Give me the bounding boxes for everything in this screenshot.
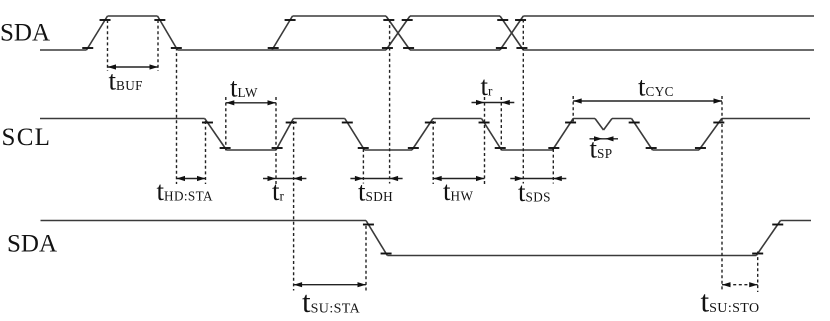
svg-text:SDA: SDA bbox=[0, 20, 50, 47]
dimension arrow tHW bbox=[433, 178, 484, 180]
wire: SCL falling edge 4 bbox=[632, 119, 653, 151]
wire: SDA top initial low segment bbox=[40, 49, 87, 51]
dimension arrow tSDH bbox=[350, 178, 402, 180]
extension line at SCL fall 3 top (tHW right / tr2 left) bbox=[484, 97, 486, 184]
wire: SCL rising edge 1 bbox=[276, 119, 293, 151]
tick marks on SDA rising edge 1 bbox=[100, 19, 111, 21]
wire: SDA top rising edge 2 bbox=[272, 16, 293, 50]
dimension arrow tSP bbox=[590, 138, 619, 140]
svg-text:tBUF: tBUF bbox=[109, 66, 143, 96]
wire: SDA crossover X1 falling diagonal bbox=[386, 16, 410, 50]
wire: SDA top low rail between crossovers bbox=[410, 49, 500, 51]
svg-text:tSDH: tSDH bbox=[358, 177, 393, 207]
extension line at SDA bottom rise (tSU:STO right) bbox=[757, 252, 759, 293]
wire: SDA bottom low segment bbox=[387, 255, 756, 257]
tick marks on SCL rising edge 2 bbox=[425, 122, 436, 124]
wire: SCL rising edge 3 bbox=[553, 119, 574, 151]
wire: SDA bottom falling edge bbox=[366, 221, 387, 256]
dimension arrow tLW bbox=[226, 102, 276, 104]
tick marks on X1 falling diagonal bbox=[383, 19, 394, 21]
extension line at SDA crossover X1 (tSDH right) bbox=[389, 20, 391, 184]
wire: SCL falling edge 1 bbox=[205, 119, 227, 151]
wire: SDA top rising edge 1 bbox=[87, 16, 108, 50]
wire: SCL high segment 5 (after spike notch) bbox=[612, 118, 632, 120]
wire: SCL falling edge 3 bbox=[482, 119, 502, 151]
tick marks on SCL rising edge 4 bbox=[713, 122, 724, 124]
wire: SDA top low rail bbox=[178, 49, 387, 51]
extension line at SDA rise 1 top (tBUF left) bbox=[107, 20, 109, 71]
wire: SCL high segment 2 bbox=[293, 118, 344, 120]
svg-text:tSU:STA: tSU:STA bbox=[302, 284, 361, 319]
extension line at SCL fall 2 bottom (tSDH left) bbox=[362, 149, 364, 184]
wire: SDA top falling edge 1 bbox=[158, 16, 178, 50]
dimension arrow tSDS bbox=[510, 178, 566, 180]
svg-text:tr: tr bbox=[481, 71, 494, 101]
extension line at SCL rise 2 top (tHW left) bbox=[432, 121, 434, 184]
extension line at SDA crossover X2 (tSDS left) bbox=[522, 20, 524, 184]
extension line at SCL rise 4 top (tCYC right / tSU:STO left) bbox=[721, 96, 723, 292]
wire: SCL low segment 3 bbox=[502, 149, 553, 151]
extension line at SCL fall 3 bottom (tr2 right) bbox=[500, 97, 502, 151]
wire: SDA crossover X2 rising diagonal bbox=[500, 16, 523, 50]
wire: SCL low segment 1 bbox=[227, 149, 277, 151]
dimension arrow tBUF bbox=[108, 66, 159, 68]
tick marks on SCL rising edge 1 bbox=[286, 122, 297, 124]
extension line at SCL rise 1 top (tr right / tSU:STA left) bbox=[293, 121, 295, 291]
svg-text:tLW: tLW bbox=[230, 73, 258, 103]
svg-text:SCL: SCL bbox=[2, 124, 52, 151]
wire: SCL low segment 2 bbox=[365, 149, 413, 151]
extension line at SCL rise 3 bottom (tSDS right) bbox=[552, 149, 554, 184]
wire: SCL falling edge 2 bbox=[345, 119, 365, 151]
wire: SDA bottom final high segment bbox=[781, 220, 812, 222]
wire: SCL rising edge 2 bbox=[412, 119, 433, 151]
dimension arrow tHD:STA bbox=[177, 178, 206, 180]
wire: SCL rising edge 4 bbox=[699, 119, 722, 151]
extension line at SDA fall 1 bottom (tHD:STA left) bbox=[176, 48, 178, 185]
extension line at SDA bottom fall (tSU:STA right) bbox=[365, 226, 367, 291]
wire: SDA top high segment 2 bbox=[293, 15, 387, 17]
tick marks on SCL falling edge 2 bbox=[342, 122, 353, 124]
tick marks on SDA rising edge 2 bbox=[285, 19, 296, 21]
wire: SDA bottom rising edge bbox=[756, 221, 780, 256]
wire: SCL high segment 3 bbox=[433, 118, 482, 120]
wire: SDA bottom high segment bbox=[41, 220, 367, 222]
svg-text:tCYC: tCYC bbox=[638, 72, 674, 102]
tick marks on SCL falling edge 4 bbox=[629, 122, 640, 124]
tick marks on X2 falling diagonal bbox=[497, 19, 508, 21]
wire: SDA crossover X2 falling diagonal bbox=[500, 16, 523, 50]
wire: SDA top final high rail bbox=[523, 15, 814, 17]
dimension arrow tSU:STO bbox=[722, 284, 758, 286]
tick marks on SDA bottom rising edge bbox=[772, 224, 783, 226]
tick marks on SCL falling edge 3 bbox=[479, 122, 490, 124]
wire: SDA top high rail between crossovers bbox=[410, 15, 500, 17]
wire: SDA top final low rail bbox=[523, 49, 814, 51]
svg-text:tHW: tHW bbox=[443, 176, 473, 206]
svg-text:tSDS: tSDS bbox=[518, 177, 551, 207]
wire: SCL final high segment bbox=[722, 118, 810, 120]
svg-text:SDA: SDA bbox=[7, 231, 57, 258]
wire: SCL spike notch rising side bbox=[604, 119, 613, 131]
wire: SDA crossover X1 rising diagonal bbox=[386, 16, 410, 50]
tick marks on SCL falling edge 1 bbox=[202, 122, 213, 124]
extension line at SCL fall 1 bottom (tLW left) bbox=[225, 97, 227, 151]
wire: SCL low segment 4 bbox=[653, 149, 700, 151]
tick marks on SDA falling edge 1 bbox=[154, 19, 165, 21]
wire: SCL spike notch falling side bbox=[595, 119, 604, 131]
dimension arrow tr (rise time, above SCL) bbox=[472, 102, 515, 104]
tick marks on X1 rising diagonal bbox=[402, 19, 413, 21]
extension line at SCL rise 3 top (tCYC left) bbox=[572, 96, 574, 122]
wire: SDA top high segment 1 bbox=[108, 15, 158, 17]
extension line at SCL rise 1 bottom (tLW right / tr left) bbox=[275, 97, 277, 184]
extension line at SDA fall 1 top (tBUF right) bbox=[157, 20, 159, 71]
svg-text:tSU:STO: tSU:STO bbox=[701, 284, 760, 319]
wire: SCL initial high segment bbox=[40, 118, 205, 120]
tick marks on X2 rising diagonal bbox=[515, 19, 526, 21]
wire: SCL high segment 4 (before spike notch) bbox=[573, 118, 595, 120]
dimension arrow tCYC bbox=[573, 100, 722, 102]
svg-text:tr: tr bbox=[272, 176, 285, 206]
tick marks on SCL rising edge 3 bbox=[565, 122, 576, 124]
tick marks on SDA bottom falling edge bbox=[363, 224, 374, 226]
dimension arrow tr (first, below SCL) bbox=[263, 178, 306, 180]
dimension arrow tSU:STA bbox=[294, 284, 366, 286]
extension line at SCL fall 1 top (tHD:STA right) bbox=[205, 121, 207, 184]
